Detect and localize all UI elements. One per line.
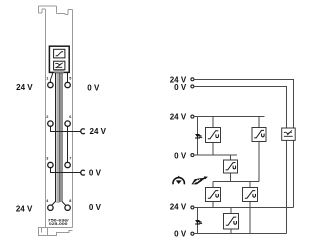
terminal 0V output [191, 232, 194, 235]
module housing top profile [39, 6, 73, 228]
pin 1 [48, 82, 53, 87]
wire 24V input rail [194, 116, 265, 118]
dc/dc converter U7 [282, 128, 296, 140]
svg-text:0 V: 0 V [174, 151, 187, 160]
wire bundle line c [61, 73, 63, 202]
svg-text:24 V: 24 V [16, 205, 33, 214]
svg-text:24 V: 24 V [170, 113, 187, 122]
svg-text:0 V: 0 V [87, 84, 100, 93]
svg-text:5: 5 [69, 76, 71, 80]
wire U6 stubs [230, 208, 232, 234]
wire 24V supply bus [194, 80, 294, 208]
wire bundle line a [54, 73, 56, 202]
svg-text:24 V: 24 V [90, 127, 107, 136]
analog ramp icon [54, 49, 65, 58]
clamp socket 24V [81, 129, 85, 134]
wire 0V supply bus [194, 87, 287, 234]
wire 24V output rail [194, 207, 294, 209]
terminal 0V supply [191, 85, 194, 88]
svg-text:3: 3 [46, 156, 48, 160]
svg-text:24 V: 24 V [170, 203, 187, 212]
module housing bottom foot [39, 228, 73, 236]
terminal 24V input [191, 115, 194, 118]
wire pin 2 to clamp 24V [50, 126, 81, 131]
pin 7 [65, 162, 70, 167]
wire LED D2 branch [197, 208, 199, 234]
svg-text:1: 1 [46, 76, 48, 80]
converter U1 [206, 128, 221, 143]
converter U2 [252, 128, 266, 142]
pin 8 [65, 205, 70, 210]
converter U3 [224, 160, 238, 173]
dc/dc converter icon [54, 61, 65, 70]
converter U4 [206, 188, 221, 202]
wire U5 stubs [249, 182, 251, 234]
terminal 0V input [191, 154, 194, 157]
wire bundle line b [59, 73, 61, 202]
svg-text:6: 6 [69, 115, 71, 119]
wire U1 stubs [212, 117, 214, 156]
wire bend into pin 4 [52, 202, 56, 206]
wire pin 3 to clamp 0V [50, 168, 81, 173]
svg-text:0 V: 0 V [174, 229, 187, 238]
svg-text:025-000: 025-000 [49, 221, 68, 226]
clamp socket 0V [81, 170, 85, 175]
screwdriver adjust icon [192, 176, 208, 184]
gray data-contact band [54, 70, 64, 74]
wire 0V input rail [194, 154, 237, 156]
wire bend into pin 8 [62, 202, 66, 206]
pin 4 [48, 205, 53, 210]
pin 2 [48, 121, 53, 126]
svg-text:24 V: 24 V [16, 83, 33, 92]
LED D1 [195, 134, 202, 138]
wire middle rail [213, 181, 259, 183]
electronics block at module top [49, 46, 69, 72]
wire LED D1 branch [197, 117, 199, 156]
pin 5 [65, 82, 70, 87]
terminal 24V supply [191, 78, 194, 81]
wire pin 6 to pin 7 [67, 126, 69, 162]
terminal 24V output [191, 206, 194, 209]
svg-text:8: 8 [69, 199, 71, 203]
wire 0V output rail [194, 233, 287, 235]
wire U2 stubs [258, 117, 260, 182]
svg-text:0 V: 0 V [89, 169, 102, 178]
LED D2 [195, 220, 202, 224]
wire U3 stubs [230, 155, 232, 182]
potentiometer dial icon [173, 176, 184, 184]
pin 3 [48, 162, 53, 167]
svg-text:7: 7 [69, 156, 71, 160]
wire to pin 5 [67, 73, 69, 82]
svg-text:0 V: 0 V [174, 83, 187, 92]
svg-text:0 V: 0 V [89, 203, 102, 212]
converter U5 [243, 188, 258, 202]
wire U4 stubs [212, 182, 214, 208]
wire to pin 1 [50, 73, 52, 82]
svg-text:2: 2 [46, 115, 48, 119]
pin 6 [65, 121, 70, 126]
converter U6 [224, 214, 239, 230]
